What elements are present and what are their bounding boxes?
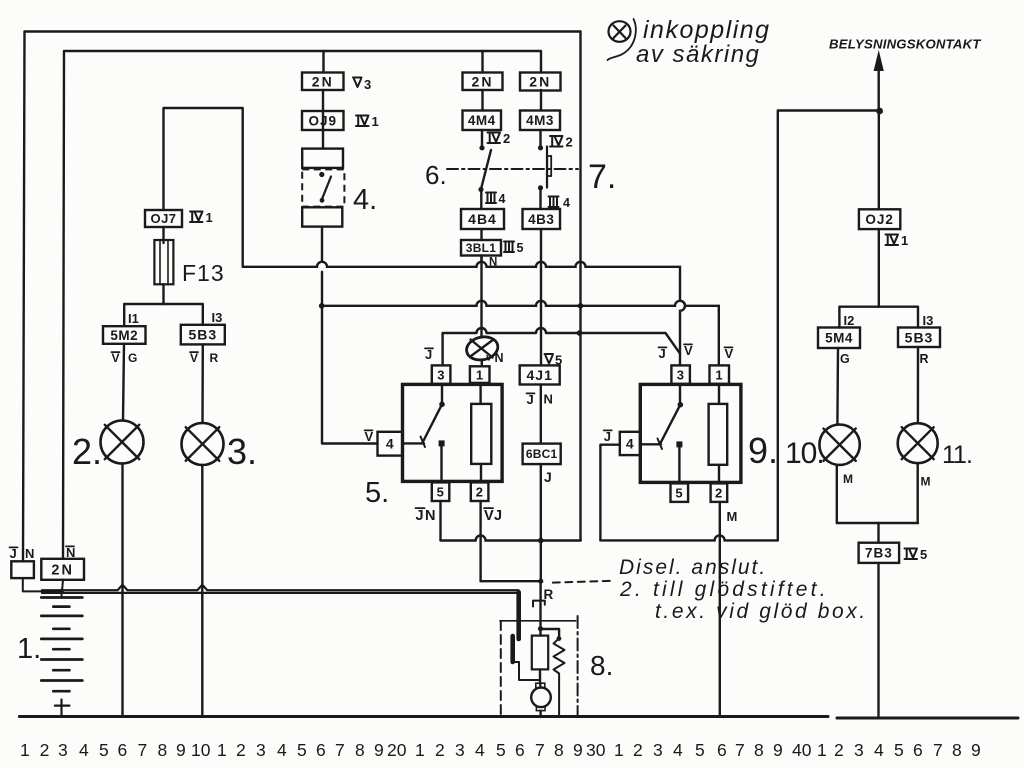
svg-text:V: V <box>365 429 374 444</box>
svg-text:2: 2 <box>476 484 484 499</box>
svg-text:OJ7: OJ7 <box>150 211 176 226</box>
svg-text:3: 3 <box>677 367 685 382</box>
svg-text:1: 1 <box>476 367 484 382</box>
svg-text:6: 6 <box>316 740 326 760</box>
svg-text:5B3: 5B3 <box>188 327 217 343</box>
svg-text:20: 20 <box>387 740 407 760</box>
svg-text:9.: 9. <box>748 430 778 471</box>
svg-text:4: 4 <box>277 740 287 760</box>
svg-text:40: 40 <box>792 740 812 760</box>
svg-text:7: 7 <box>933 740 943 760</box>
svg-text:v: v <box>486 353 492 364</box>
svg-text:5: 5 <box>920 547 927 562</box>
svg-text:4: 4 <box>79 740 89 760</box>
svg-text:4.: 4. <box>353 184 377 216</box>
svg-text:1: 1 <box>372 114 379 129</box>
svg-text:4: 4 <box>626 435 634 451</box>
svg-text:7: 7 <box>735 740 745 760</box>
svg-text:4B4: 4B4 <box>468 211 497 227</box>
svg-text:2. till glödstiftet.: 2. till glödstiftet. <box>619 578 829 601</box>
svg-text:5: 5 <box>555 353 562 368</box>
svg-text:3.: 3. <box>227 431 257 472</box>
svg-text:2: 2 <box>566 135 573 150</box>
svg-text:30: 30 <box>586 740 606 760</box>
svg-text:1: 1 <box>715 367 723 382</box>
svg-text:11.: 11. <box>942 441 972 469</box>
svg-text:9: 9 <box>176 740 186 760</box>
svg-text:2.: 2. <box>72 431 102 472</box>
svg-text:7: 7 <box>335 740 345 760</box>
svg-text:J: J <box>425 347 432 362</box>
svg-text:5: 5 <box>437 484 445 499</box>
svg-text:F13: F13 <box>182 260 225 286</box>
svg-text:V: V <box>190 351 198 365</box>
svg-text:3BL1: 3BL1 <box>466 241 497 255</box>
svg-text:2N: 2N <box>312 73 334 89</box>
svg-text:8.: 8. <box>590 650 613 681</box>
svg-text:1: 1 <box>614 740 624 760</box>
svg-text:2: 2 <box>834 740 844 760</box>
svg-text:2N: 2N <box>472 73 494 89</box>
svg-text:Disel. anslut.: Disel. anslut. <box>619 556 767 579</box>
svg-text:7B3: 7B3 <box>865 546 893 561</box>
svg-text:1: 1 <box>217 740 227 760</box>
svg-text:3: 3 <box>58 740 68 760</box>
svg-text:N: N <box>25 546 34 561</box>
svg-text:2: 2 <box>236 740 246 760</box>
svg-text:5.: 5. <box>365 477 389 509</box>
svg-text:I3: I3 <box>923 313 934 328</box>
svg-text:3: 3 <box>455 740 465 760</box>
svg-text:M: M <box>843 472 853 486</box>
svg-text:1: 1 <box>901 233 908 248</box>
svg-text:2: 2 <box>435 740 445 760</box>
svg-text:5: 5 <box>496 740 506 760</box>
svg-text:I1: I1 <box>128 311 139 326</box>
svg-text:M: M <box>727 509 738 524</box>
svg-text:V: V <box>725 346 734 361</box>
svg-text:V: V <box>684 343 693 358</box>
svg-text:M: M <box>921 475 931 489</box>
svg-text:N: N <box>66 545 75 560</box>
svg-text:1: 1 <box>817 740 827 760</box>
svg-text:4: 4 <box>874 740 884 760</box>
svg-text:R: R <box>544 587 554 602</box>
svg-text:5: 5 <box>894 740 904 760</box>
svg-text:R: R <box>920 352 929 366</box>
svg-text:3: 3 <box>256 740 266 760</box>
svg-text:1: 1 <box>415 740 425 760</box>
svg-text:6.: 6. <box>425 160 447 190</box>
svg-text:4: 4 <box>386 436 394 452</box>
svg-text:6: 6 <box>913 740 923 760</box>
svg-text:N: N <box>425 508 435 524</box>
svg-text:3: 3 <box>437 367 445 382</box>
svg-text:J: J <box>604 429 611 444</box>
svg-text:inkoppling: inkoppling <box>643 16 771 44</box>
svg-text:1.: 1. <box>17 633 41 665</box>
svg-text:5: 5 <box>517 241 524 255</box>
svg-text:6: 6 <box>515 740 525 760</box>
svg-text:2N: 2N <box>51 563 74 579</box>
svg-text:G: G <box>840 352 850 366</box>
svg-text:1: 1 <box>206 210 213 225</box>
svg-text:J: J <box>544 469 552 485</box>
svg-text:10.: 10. <box>785 437 824 470</box>
svg-text:10: 10 <box>191 740 211 760</box>
svg-text:av säkring: av säkring <box>636 41 760 68</box>
svg-text:3: 3 <box>854 740 864 760</box>
svg-text:9: 9 <box>773 740 783 760</box>
svg-text:5M4: 5M4 <box>825 331 853 346</box>
svg-text:4: 4 <box>673 740 683 760</box>
svg-text:2N: 2N <box>529 74 551 90</box>
svg-text:I3: I3 <box>212 310 223 325</box>
svg-text:6: 6 <box>118 740 128 760</box>
svg-text:4B3: 4B3 <box>528 212 554 227</box>
svg-text:J: J <box>659 346 666 361</box>
svg-text:J: J <box>10 546 17 561</box>
svg-text:OJ9: OJ9 <box>308 113 337 128</box>
svg-text:8: 8 <box>754 740 764 760</box>
svg-text:5: 5 <box>99 740 109 760</box>
svg-text:7: 7 <box>138 740 148 760</box>
svg-text:8: 8 <box>952 740 962 760</box>
svg-text:t.ex. vid glöd box.: t.ex. vid glöd box. <box>655 600 868 623</box>
svg-text:5B3: 5B3 <box>905 329 934 345</box>
svg-text:2: 2 <box>503 131 510 146</box>
svg-text:3: 3 <box>653 740 663 760</box>
svg-text:J: J <box>416 508 424 524</box>
svg-text:BELYSNINGSKONTAKT: BELYSNINGSKONTAKT <box>829 37 981 52</box>
svg-text:2: 2 <box>633 740 643 760</box>
svg-text:5: 5 <box>675 485 683 500</box>
svg-text:V: V <box>112 351 120 365</box>
svg-text:5: 5 <box>695 740 705 760</box>
svg-text:3: 3 <box>364 77 371 92</box>
svg-text:1: 1 <box>20 740 30 760</box>
svg-text:8: 8 <box>158 740 168 760</box>
svg-text:N: N <box>544 392 553 407</box>
svg-text:6: 6 <box>717 740 727 760</box>
svg-text:9: 9 <box>573 740 583 760</box>
svg-text:8: 8 <box>554 740 564 760</box>
svg-text:J: J <box>494 508 502 524</box>
svg-text:2: 2 <box>715 485 723 500</box>
svg-text:G: G <box>128 351 137 365</box>
svg-text:8: 8 <box>355 740 365 760</box>
svg-text:V: V <box>484 508 494 524</box>
svg-text:4: 4 <box>475 740 485 760</box>
svg-text:7.: 7. <box>588 158 616 196</box>
svg-text:9: 9 <box>971 740 981 760</box>
svg-text:N: N <box>489 257 497 269</box>
svg-text:N: N <box>495 351 504 365</box>
svg-text:I2: I2 <box>844 313 855 328</box>
svg-text:7: 7 <box>535 740 545 760</box>
svg-text:5: 5 <box>297 740 307 760</box>
svg-text:R: R <box>210 351 219 365</box>
svg-text:4: 4 <box>563 196 570 210</box>
svg-text:6BC1: 6BC1 <box>526 447 558 461</box>
svg-text:4: 4 <box>499 192 506 206</box>
svg-text:OJ2: OJ2 <box>865 212 894 227</box>
svg-text:4M4: 4M4 <box>468 113 496 128</box>
svg-text:5M2: 5M2 <box>110 328 138 343</box>
svg-text:4M3: 4M3 <box>526 113 554 128</box>
svg-text:9: 9 <box>374 740 384 760</box>
svg-text:4J1: 4J1 <box>527 367 553 383</box>
svg-text:2: 2 <box>40 740 50 760</box>
svg-text:J: J <box>527 392 534 407</box>
